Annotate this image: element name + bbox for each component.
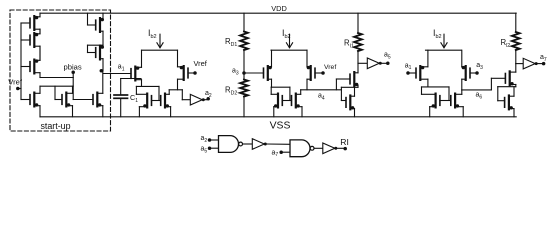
svg-text:Ib2: Ib2 xyxy=(148,28,157,40)
svg-text:a7: a7 xyxy=(540,54,547,63)
svg-text:pbias: pbias xyxy=(64,62,82,71)
svg-text:RD2: RD2 xyxy=(225,86,237,97)
svg-text:VSS: VSS xyxy=(270,121,291,132)
svg-text:RD1: RD1 xyxy=(225,37,237,48)
svg-text:Vref: Vref xyxy=(8,78,23,87)
svg-text:Vref: Vref xyxy=(324,64,336,71)
svg-text:Ib2: Ib2 xyxy=(433,28,442,40)
svg-text:a3: a3 xyxy=(476,62,483,71)
svg-text:RI: RI xyxy=(340,137,349,147)
svg-text:RI1: RI1 xyxy=(344,39,354,50)
svg-text:a5: a5 xyxy=(384,52,391,61)
svg-text:Vref: Vref xyxy=(194,59,208,68)
svg-text:a5: a5 xyxy=(201,146,208,155)
svg-text:a4: a4 xyxy=(318,93,325,102)
svg-text:start-up: start-up xyxy=(40,121,70,131)
svg-text:Rl2: Rl2 xyxy=(501,38,511,49)
svg-text:a2: a2 xyxy=(205,90,212,99)
svg-text:a1: a1 xyxy=(405,62,412,71)
svg-text:a3: a3 xyxy=(232,68,239,77)
svg-text:a1: a1 xyxy=(118,64,125,73)
svg-text:a7: a7 xyxy=(272,149,279,158)
svg-text:a6: a6 xyxy=(476,92,483,101)
svg-text:VDD: VDD xyxy=(271,4,287,13)
svg-text:a2: a2 xyxy=(201,135,208,144)
